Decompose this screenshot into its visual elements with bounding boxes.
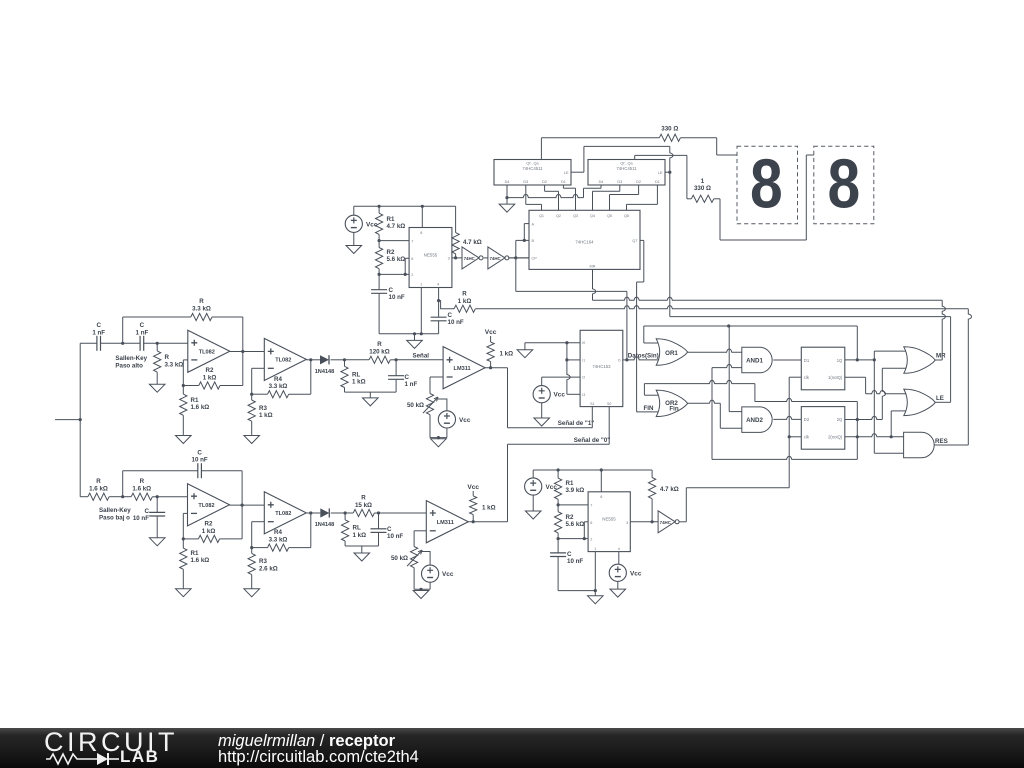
svg-text:R: R — [361, 495, 366, 502]
resistor R2 5.6k (555#2) — [555, 512, 562, 533]
resistor R(1) 330 ohm (display DS2 feed) — [634, 155, 636, 159]
inverter 74HC04 A — [462, 247, 479, 269]
svg-text:D4: D4 — [505, 180, 510, 184]
svg-text:Vcc: Vcc — [630, 570, 642, 577]
wire pin6-pin2 bracket — [405, 257, 409, 259]
resistor R 120k — [345, 359, 370, 361]
svg-text:TL082: TL082 — [275, 511, 291, 517]
wire AND2 out to D2 — [773, 416, 801, 419]
svg-text:1 kΩ: 1 kΩ — [203, 374, 217, 381]
wire MR pin vertical — [593, 269, 596, 300]
wire pot2 bottom — [413, 568, 415, 590]
ground (V6) — [541, 417, 543, 419]
svg-text:10 nF: 10 nF — [192, 457, 208, 464]
svg-text:Q2: Q2 — [556, 214, 561, 218]
svg-text:Q1: Q1 — [539, 214, 544, 218]
wire LP1 fb vertical — [241, 471, 243, 539]
wire clock route to flip-flops — [679, 521, 686, 523]
wire MR out to rail — [935, 359, 942, 361]
resistor R1 3.9k (555#2) — [557, 470, 559, 478]
capacitor C 1nF (first) — [96, 336, 98, 351]
ground (lower pot) — [420, 589, 422, 590]
svg-text:3.9 kΩ: 3.9 kΩ — [566, 487, 585, 494]
svg-text:R2: R2 — [206, 367, 214, 374]
wire A-B loop of U5 — [524, 223, 529, 225]
svg-text:B: B — [532, 239, 535, 243]
svg-text:1N4148: 1N4148 — [315, 369, 335, 375]
wire B to CP node — [515, 240, 517, 291]
wire lower detector bottom — [345, 545, 378, 547]
resistor R1 1.6k (stage1 gnd) — [180, 394, 187, 415]
capacitor C 1nF (second) — [139, 336, 141, 351]
svg-text:C: C — [567, 551, 572, 558]
wire pot bottom — [429, 415, 431, 438]
resistor 4.7k pull-up (555#2 out) — [651, 470, 653, 478]
svg-text:Señal de "0": Señal de "0" — [574, 437, 611, 444]
resistor R 3.3k (HP shunt) — [156, 343, 158, 351]
wire inv A to inv B — [484, 257, 488, 259]
svg-text:Qf...Qa: Qf...Qa — [526, 162, 539, 166]
wire 555#1 bottom rail — [379, 333, 439, 335]
wire 555#2 pin3 out — [630, 521, 658, 523]
wire pin4 / reset vertical — [438, 288, 440, 318]
wire inverting input LP2 — [252, 521, 265, 523]
svg-text:8: 8 — [600, 495, 602, 499]
svg-text:Datos(Sin): Datos(Sin) — [628, 352, 659, 359]
svg-text:3: 3 — [448, 257, 450, 261]
capacitor C 10nF (555#1 timing) — [378, 274, 380, 289]
comparator U8 LM311 (upper) — [443, 347, 485, 389]
svg-text:74HC153: 74HC153 — [592, 364, 611, 369]
IC U12 74HC153 mux box — [580, 330, 623, 406]
svg-text:Q6: Q6 — [624, 214, 629, 218]
wire pin1 stub — [420, 288, 422, 334]
wire D4(U3) to ground net — [506, 185, 508, 198]
capacitor C 10nF (lower detector) — [378, 513, 380, 529]
resistor R 15k — [345, 512, 353, 514]
resistor R3 2.6k (LP2 gnd) — [251, 548, 253, 554]
svg-text:LE: LE — [658, 171, 663, 175]
input port stub — [55, 419, 80, 421]
OR gate OR1 — [656, 339, 688, 366]
ground (R3 stage2) — [251, 434, 253, 437]
comparator U11 LM311 (lower) — [426, 501, 468, 543]
IC U5 74HC164 shift register box — [529, 210, 640, 269]
svg-text:1: 1 — [701, 178, 705, 185]
wire LM311 out (Senal de 1) — [485, 367, 507, 369]
svg-text:Q3: Q3 — [573, 214, 578, 218]
ground (V1) — [353, 240, 355, 246]
svg-text:RES: RES — [935, 438, 948, 445]
wire LE(U3) route — [571, 171, 584, 173]
svg-text:OR1: OR1 — [665, 350, 678, 357]
svg-text:Señal: Señal — [412, 353, 429, 360]
wire pin4 stub + source (555#2) — [618, 552, 620, 565]
svg-text:50 kΩ: 50 kΩ — [391, 555, 408, 562]
svg-text:Sallen-Key: Sallen-Key — [115, 355, 147, 362]
wire LE lower input — [890, 411, 892, 437]
svg-text:7: 7 — [411, 239, 413, 243]
wire 2Q row to MR lower — [845, 416, 883, 419]
wire stage1 out to stage2+ — [230, 351, 265, 353]
svg-text:C: C — [448, 312, 453, 319]
svg-text:I1: I1 — [582, 358, 585, 362]
ground (LP shunt C) — [156, 536, 158, 539]
wire inverting input stage2 — [252, 367, 265, 369]
svg-text:C: C — [387, 526, 392, 533]
svg-text:AND2: AND2 — [746, 417, 763, 424]
svg-text:D3: D3 — [523, 180, 528, 184]
wire LE(U4) stub — [665, 171, 670, 173]
resistor RL 1k (upper) — [344, 360, 346, 367]
svg-text:S0: S0 — [607, 402, 611, 406]
svg-text:4: 4 — [618, 547, 620, 551]
wire 1Q to MR upper / RES lower (x=874 vertical) — [873, 351, 875, 453]
svg-text:74HC164: 74HC164 — [575, 240, 594, 245]
svg-text:Vcc: Vcc — [459, 417, 471, 424]
svg-text:C: C — [389, 287, 394, 294]
svg-text:R: R — [140, 478, 145, 485]
svg-text:1 kΩ: 1 kΩ — [259, 412, 273, 419]
wire LE vertical (LE net down to rail) — [670, 146, 673, 316]
resistor 330 ohm (top, display DS1 feed) — [540, 138, 542, 160]
wire pin1 stub (555#2) — [594, 552, 596, 591]
potentiometer 50k (upper) — [426, 394, 433, 415]
svg-text:D1: D1 — [561, 180, 566, 184]
IC U1 NE555 timer box — [409, 228, 452, 288]
svg-text:10 nF: 10 nF — [448, 319, 464, 326]
svg-text:4.7 kΩ: 4.7 kΩ — [660, 486, 679, 493]
wire Q7 to FIN/OR2 — [640, 239, 644, 241]
ground (R1 stage1) — [182, 434, 184, 437]
svg-text:330 Ω: 330 Ω — [661, 126, 678, 133]
OR gate LE — [904, 389, 936, 416]
IC U4 74HC4511 (right BCD decoder) box — [588, 160, 665, 186]
svg-text:3.3 kΩ: 3.3 kΩ — [269, 536, 288, 543]
ground (upper pot) — [437, 438, 439, 439]
resistor RL 1k (lower) — [344, 513, 346, 520]
svg-text:2Q: 2Q — [837, 417, 843, 422]
wire MR rail (to MR gate) — [593, 297, 943, 300]
ground (555#2) — [594, 591, 596, 596]
wire CP row — [508, 257, 529, 259]
svg-text:3.3 kΩ: 3.3 kΩ — [269, 383, 288, 390]
svg-text:D4: D4 — [599, 180, 604, 184]
svg-text:6: 6 — [411, 257, 413, 261]
wire AND1 lower input (2notQ net) — [712, 364, 742, 367]
resistor R2 5.6k — [376, 248, 383, 269]
svg-text:R1: R1 — [566, 480, 574, 487]
svg-text:R: R — [96, 478, 101, 485]
wire pin2 row — [379, 273, 409, 275]
svg-text:3.3 kΩ: 3.3 kΩ — [165, 361, 184, 368]
IC U2 NE555 timer box (bottom) — [588, 492, 630, 552]
svg-text:TL082: TL082 — [199, 349, 215, 355]
svg-text:Vcc: Vcc — [442, 571, 454, 578]
wire pin6-pin2 bracket (555#2) — [584, 521, 588, 523]
svg-text:Q4: Q4 — [590, 214, 595, 218]
ground (V4) — [532, 510, 534, 512]
svg-text:1.6 kΩ: 1.6 kΩ — [89, 485, 108, 492]
svg-text:Señal de "1": Señal de "1" — [558, 420, 595, 427]
svg-text:Q5: Q5 — [607, 214, 612, 218]
wire Datos row to OR1 — [627, 357, 659, 360]
svg-text:D2: D2 — [636, 180, 641, 184]
svg-text:R: R — [377, 341, 382, 348]
resistor 4.7k pull-up (555#1 out) — [455, 206, 457, 232]
svg-text:4: 4 — [437, 283, 439, 287]
svg-text:50 kΩ: 50 kΩ — [407, 402, 424, 409]
svg-text:8: 8 — [750, 144, 783, 223]
wire 555#1 pin3 out — [452, 257, 462, 259]
voltage source V3 Vcc (lower pot) — [422, 565, 439, 582]
wire to comparator+ — [396, 359, 443, 361]
svg-text:1(notQ): 1(notQ) — [828, 375, 843, 380]
wire I2 row from Vcc — [542, 376, 580, 378]
wire pin7 row (555#2) — [558, 504, 588, 506]
svg-text:2(notQ): 2(notQ) — [828, 435, 843, 440]
svg-text:D2: D2 — [804, 417, 810, 422]
voltage source V1 Vcc — [345, 215, 362, 232]
svg-text:CP: CP — [532, 257, 538, 261]
svg-text:1.6 kΩ: 1.6 kΩ — [191, 557, 210, 564]
svg-text:Sallen-Key: Sallen-Key — [99, 507, 131, 514]
svg-text:1 kΩ: 1 kΩ — [202, 528, 216, 535]
voltage source V2 Vcc (upper pot) — [438, 411, 455, 428]
svg-text:5.6 kΩ: 5.6 kΩ — [566, 521, 585, 528]
svg-text:74HC: 74HC — [489, 256, 501, 261]
op-amp U6 TL082 (HP stage1) — [188, 330, 230, 372]
svg-text:R: R — [165, 354, 170, 361]
op-amp U7 TL082 (HP stage2) — [264, 338, 306, 380]
ground (HP shunt R) — [156, 382, 158, 385]
capacitor C 10nF (LP shunt) — [156, 497, 158, 513]
svg-text:R2: R2 — [205, 521, 213, 528]
svg-text:R: R — [199, 298, 204, 305]
svg-text:4.7 kΩ: 4.7 kΩ — [387, 223, 406, 230]
svg-text:6: 6 — [590, 521, 592, 525]
svg-text:10 nF: 10 nF — [387, 533, 403, 540]
wire clock vertical (clk net) — [788, 377, 790, 488]
svg-text:1: 1 — [594, 547, 596, 551]
svg-text:1N4148: 1N4148 — [315, 522, 335, 528]
wire stage2 fb vertical — [310, 360, 312, 394]
svg-text:1 nF: 1 nF — [136, 329, 149, 336]
resistor R2 1k (stage1 fb) — [183, 385, 199, 387]
svg-text:74HC: 74HC — [660, 520, 672, 525]
IC U3 74HC4511 (left BCD decoder) box — [494, 160, 571, 186]
wire LE out to rail — [935, 401, 950, 403]
svg-text:TL082: TL082 — [275, 358, 291, 364]
svg-text:I2: I2 — [582, 376, 585, 380]
wire Q5 to D2(U4) — [609, 195, 611, 211]
svg-text:MR: MR — [590, 264, 596, 268]
svg-text:1 kΩ: 1 kΩ — [352, 379, 366, 386]
voltage source V6 Vcc (mux I2) — [533, 386, 550, 403]
svg-text:8: 8 — [420, 231, 422, 235]
svg-text:RL: RL — [352, 371, 360, 378]
svg-text:Vcc: Vcc — [554, 392, 566, 399]
svg-text:3: 3 — [626, 521, 628, 525]
svg-text:1 kΩ: 1 kΩ — [482, 504, 496, 511]
wire 2Q/2notQ vertical links — [856, 402, 858, 420]
wire Q4 to D3(U4) — [592, 191, 594, 210]
resistor R 1.6k (LP second) — [131, 493, 152, 500]
svg-text:LM311: LM311 — [454, 366, 471, 372]
wire pin8 stub — [421, 206, 423, 227]
capacitor C 10nF (LP feedback) — [122, 471, 124, 497]
wire 1Q net vertical to AND2 upper — [728, 326, 730, 412]
svg-text:1.6 kΩ: 1.6 kΩ — [132, 485, 151, 492]
capacitor C 10nF (555#2 timing) — [557, 539, 559, 553]
wire to comparator2+ — [379, 512, 427, 514]
resistor R 1.6k (LP first) — [80, 496, 88, 498]
svg-text:2: 2 — [411, 273, 413, 277]
svg-text:Fin: Fin — [669, 406, 678, 413]
svg-text:D2: D2 — [542, 180, 547, 184]
svg-text:MR: MR — [936, 353, 946, 360]
svg-text:10 nF: 10 nF — [133, 515, 149, 522]
op-amp U9 TL082 (LP stage1) — [188, 484, 230, 526]
wire stage1 fb vertical — [242, 317, 244, 386]
wire 555#2 bottom rail — [558, 590, 595, 592]
svg-text:R2: R2 — [566, 514, 574, 521]
svg-text:330 Ω: 330 Ω — [694, 185, 711, 192]
svg-text:1: 1 — [420, 283, 422, 287]
svg-text:I3: I3 — [582, 393, 585, 397]
wire Q3 to D1(U3) — [562, 185, 564, 188]
wire 1(notQ) to LE upper — [845, 376, 866, 378]
diode D1 1N4148 (upper) — [306, 359, 320, 361]
svg-text:R: R — [462, 291, 467, 298]
resistor R 3.3k (HP feedback) — [122, 317, 124, 343]
D flip-flop DFF2 box — [801, 407, 845, 450]
svg-text:Qf...Qa: Qf...Qa — [620, 162, 633, 166]
wire Q2 to D2(U3) — [544, 185, 546, 191]
voltage source V5 Vcc (555#2 reset) — [609, 564, 626, 581]
svg-text:clk: clk — [804, 375, 810, 380]
wire inv B to CP — [510, 257, 529, 259]
wire LP2 fb vertical — [310, 513, 312, 548]
svg-text:Vcc: Vcc — [467, 484, 479, 491]
svg-text:Vcc: Vcc — [485, 329, 497, 336]
wire OR2 out to AND2 lower — [688, 400, 721, 403]
svg-text:1 kΩ: 1 kΩ — [500, 350, 514, 357]
wire 2Q to OR2 upper — [643, 384, 645, 396]
ground (mux I0/I1) — [524, 343, 526, 350]
svg-text:Paso alto: Paso alto — [115, 362, 143, 369]
svg-text:LM311: LM311 — [437, 520, 454, 526]
svg-text:1 kΩ: 1 kΩ — [458, 298, 472, 305]
svg-text:C: C — [140, 322, 145, 329]
svg-text:Paso baj o: Paso baj o — [99, 514, 130, 521]
wire pot wiper to Vcc source — [438, 399, 447, 411]
wire inverting to pot (upper) — [430, 376, 443, 378]
inverter 74HC04 C — [658, 511, 675, 533]
voltage source V4 Vcc (555#2) — [525, 478, 542, 495]
svg-text:D3: D3 — [617, 180, 622, 184]
svg-text:1 nF: 1 nF — [405, 381, 418, 388]
svg-text:7: 7 — [590, 504, 592, 508]
wire OR1 out to AND1 — [688, 349, 742, 352]
wire Q6 to D1(U4) — [626, 204, 628, 210]
wire inverting to pot (lower) — [414, 530, 426, 532]
svg-text:74HC4511: 74HC4511 — [522, 166, 543, 171]
resistor R2 1k (LP1 fb) — [183, 538, 198, 540]
diode D2 1N4148 (lower) — [306, 512, 320, 514]
AND gate AND1 — [742, 347, 772, 373]
AND gate AND2 — [742, 407, 772, 433]
svg-text:NE555: NE555 — [602, 517, 616, 522]
svg-text:LE: LE — [936, 395, 944, 402]
wire LP1 out to LP2+ — [229, 504, 264, 506]
svg-text:Q7: Q7 — [632, 239, 637, 243]
wire data net horizontal to mux output — [516, 290, 627, 292]
wire C1-C2 — [101, 342, 141, 344]
7-segment display DS2 (dashed box) — [814, 146, 874, 224]
wire detector bottom — [345, 391, 397, 393]
svg-text:LE: LE — [564, 171, 569, 175]
svg-text:R4: R4 — [274, 376, 282, 383]
svg-text:D1: D1 — [655, 180, 660, 184]
svg-text:C: C — [197, 449, 202, 456]
svg-text:NE555: NE555 — [424, 253, 438, 258]
resistor R4 3.3k (stage2 fb) — [252, 393, 268, 395]
svg-text:O: O — [618, 358, 621, 362]
resistor R 1k (RES rail) — [439, 301, 455, 309]
svg-text:4.7 kΩ: 4.7 kΩ — [463, 239, 482, 246]
wire RES rail (R 1k to RES gate) — [475, 306, 968, 309]
svg-text:5.6 kΩ: 5.6 kΩ — [387, 256, 406, 263]
wire Vcc top rail (555#2) — [533, 469, 652, 471]
wire I0-I1-I3 vertical — [567, 343, 570, 395]
svg-text:R2: R2 — [387, 249, 395, 256]
wire Q1 to D3(U3) — [525, 185, 527, 204]
ground (detector) — [369, 392, 371, 398]
wire pot2 wiper to Vcc source — [422, 552, 430, 566]
svg-text:R4: R4 — [274, 529, 282, 536]
wire LE rail (to LE gate) — [670, 316, 951, 318]
OR gate OR2 — [656, 390, 688, 417]
ground (V5) — [617, 588, 619, 590]
wire mux output stub / Datos(Sin) — [623, 359, 627, 361]
svg-text:1.6 kΩ: 1.6 kΩ — [191, 404, 210, 411]
wire pin7 row — [379, 240, 409, 242]
svg-text:AND1: AND1 — [746, 357, 763, 364]
inverter 74HC04 B — [488, 247, 505, 269]
ground (555#1) — [414, 334, 416, 341]
svg-text:R3: R3 — [259, 405, 267, 412]
wire pin2 row (555#2) — [558, 538, 588, 540]
svg-text:TL082: TL082 — [198, 503, 214, 509]
capacitor C 1nF (detector) — [395, 360, 397, 376]
svg-text:R1: R1 — [387, 216, 395, 223]
ground (LP2 R3) — [251, 587, 253, 590]
7-segment display DS1 (dashed box) — [737, 146, 798, 224]
ground (4511 D4 inputs) — [506, 198, 508, 205]
svg-text:74HC4511: 74HC4511 — [616, 166, 637, 171]
wire 330ohm to DS1 — [680, 137, 716, 139]
wire 1Q row — [845, 359, 875, 361]
OR gate MR — [904, 347, 936, 374]
wire Vcc top rail (555 #1) — [354, 205, 456, 207]
resistor R4 3.3k (LP2 fb) — [252, 547, 268, 549]
svg-text:R3: R3 — [259, 558, 267, 565]
svg-text:R1: R1 — [191, 550, 199, 557]
svg-text:FIN: FIN — [644, 405, 654, 412]
svg-text:8: 8 — [827, 144, 860, 223]
svg-text:1 nF: 1 nF — [92, 329, 105, 336]
